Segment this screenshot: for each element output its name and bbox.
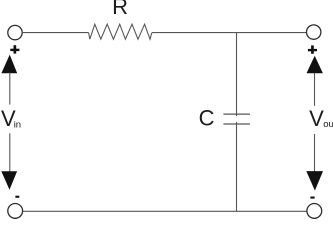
- Vin lower arrowhead (down): [1, 171, 17, 190]
- Vout lower arrowhead (down): [306, 171, 323, 191]
- Vout upper arrow shaft: [314, 73, 316, 106]
- plus sign Vin: [10, 45, 19, 53]
- minus sign Vin: [15, 196, 19, 198]
- capacitor C1 top plate: [223, 113, 250, 115]
- wire capacitor branch upper: [236, 33, 238, 117]
- svg-text:out: out: [323, 119, 333, 130]
- Vin upper arrowhead (up): [1, 55, 17, 74]
- Vin upper arrow shaft: [9, 73, 11, 105]
- wire top-left (terminal to resistor): [22, 32, 88, 34]
- terminal output + (top-right circle): [307, 25, 321, 39]
- svg-text:in: in: [14, 120, 21, 131]
- svg-text:C: C: [199, 105, 215, 130]
- svg-text:V: V: [309, 106, 324, 131]
- plus sign Vout: [308, 45, 317, 53]
- Vin lower arrow shaft: [9, 133, 11, 172]
- terminal input + (top-left circle): [8, 25, 22, 39]
- Vout upper arrowhead (up): [307, 56, 323, 74]
- resistor R1 zigzag: [89, 24, 152, 39]
- wire bottom: [23, 210, 307, 212]
- terminal output - (bottom-right circle): [307, 204, 322, 219]
- minus sign Vout: [310, 197, 314, 199]
- wire top-right (resistor to output terminal): [152, 32, 307, 34]
- Vout lower arrow shaft: [314, 134, 316, 172]
- terminal input - (bottom-left circle): [8, 204, 23, 219]
- capacitor C1 bottom plate: [223, 123, 250, 125]
- wire capacitor branch lower: [236, 122, 238, 211]
- svg-text:R: R: [112, 0, 128, 19]
